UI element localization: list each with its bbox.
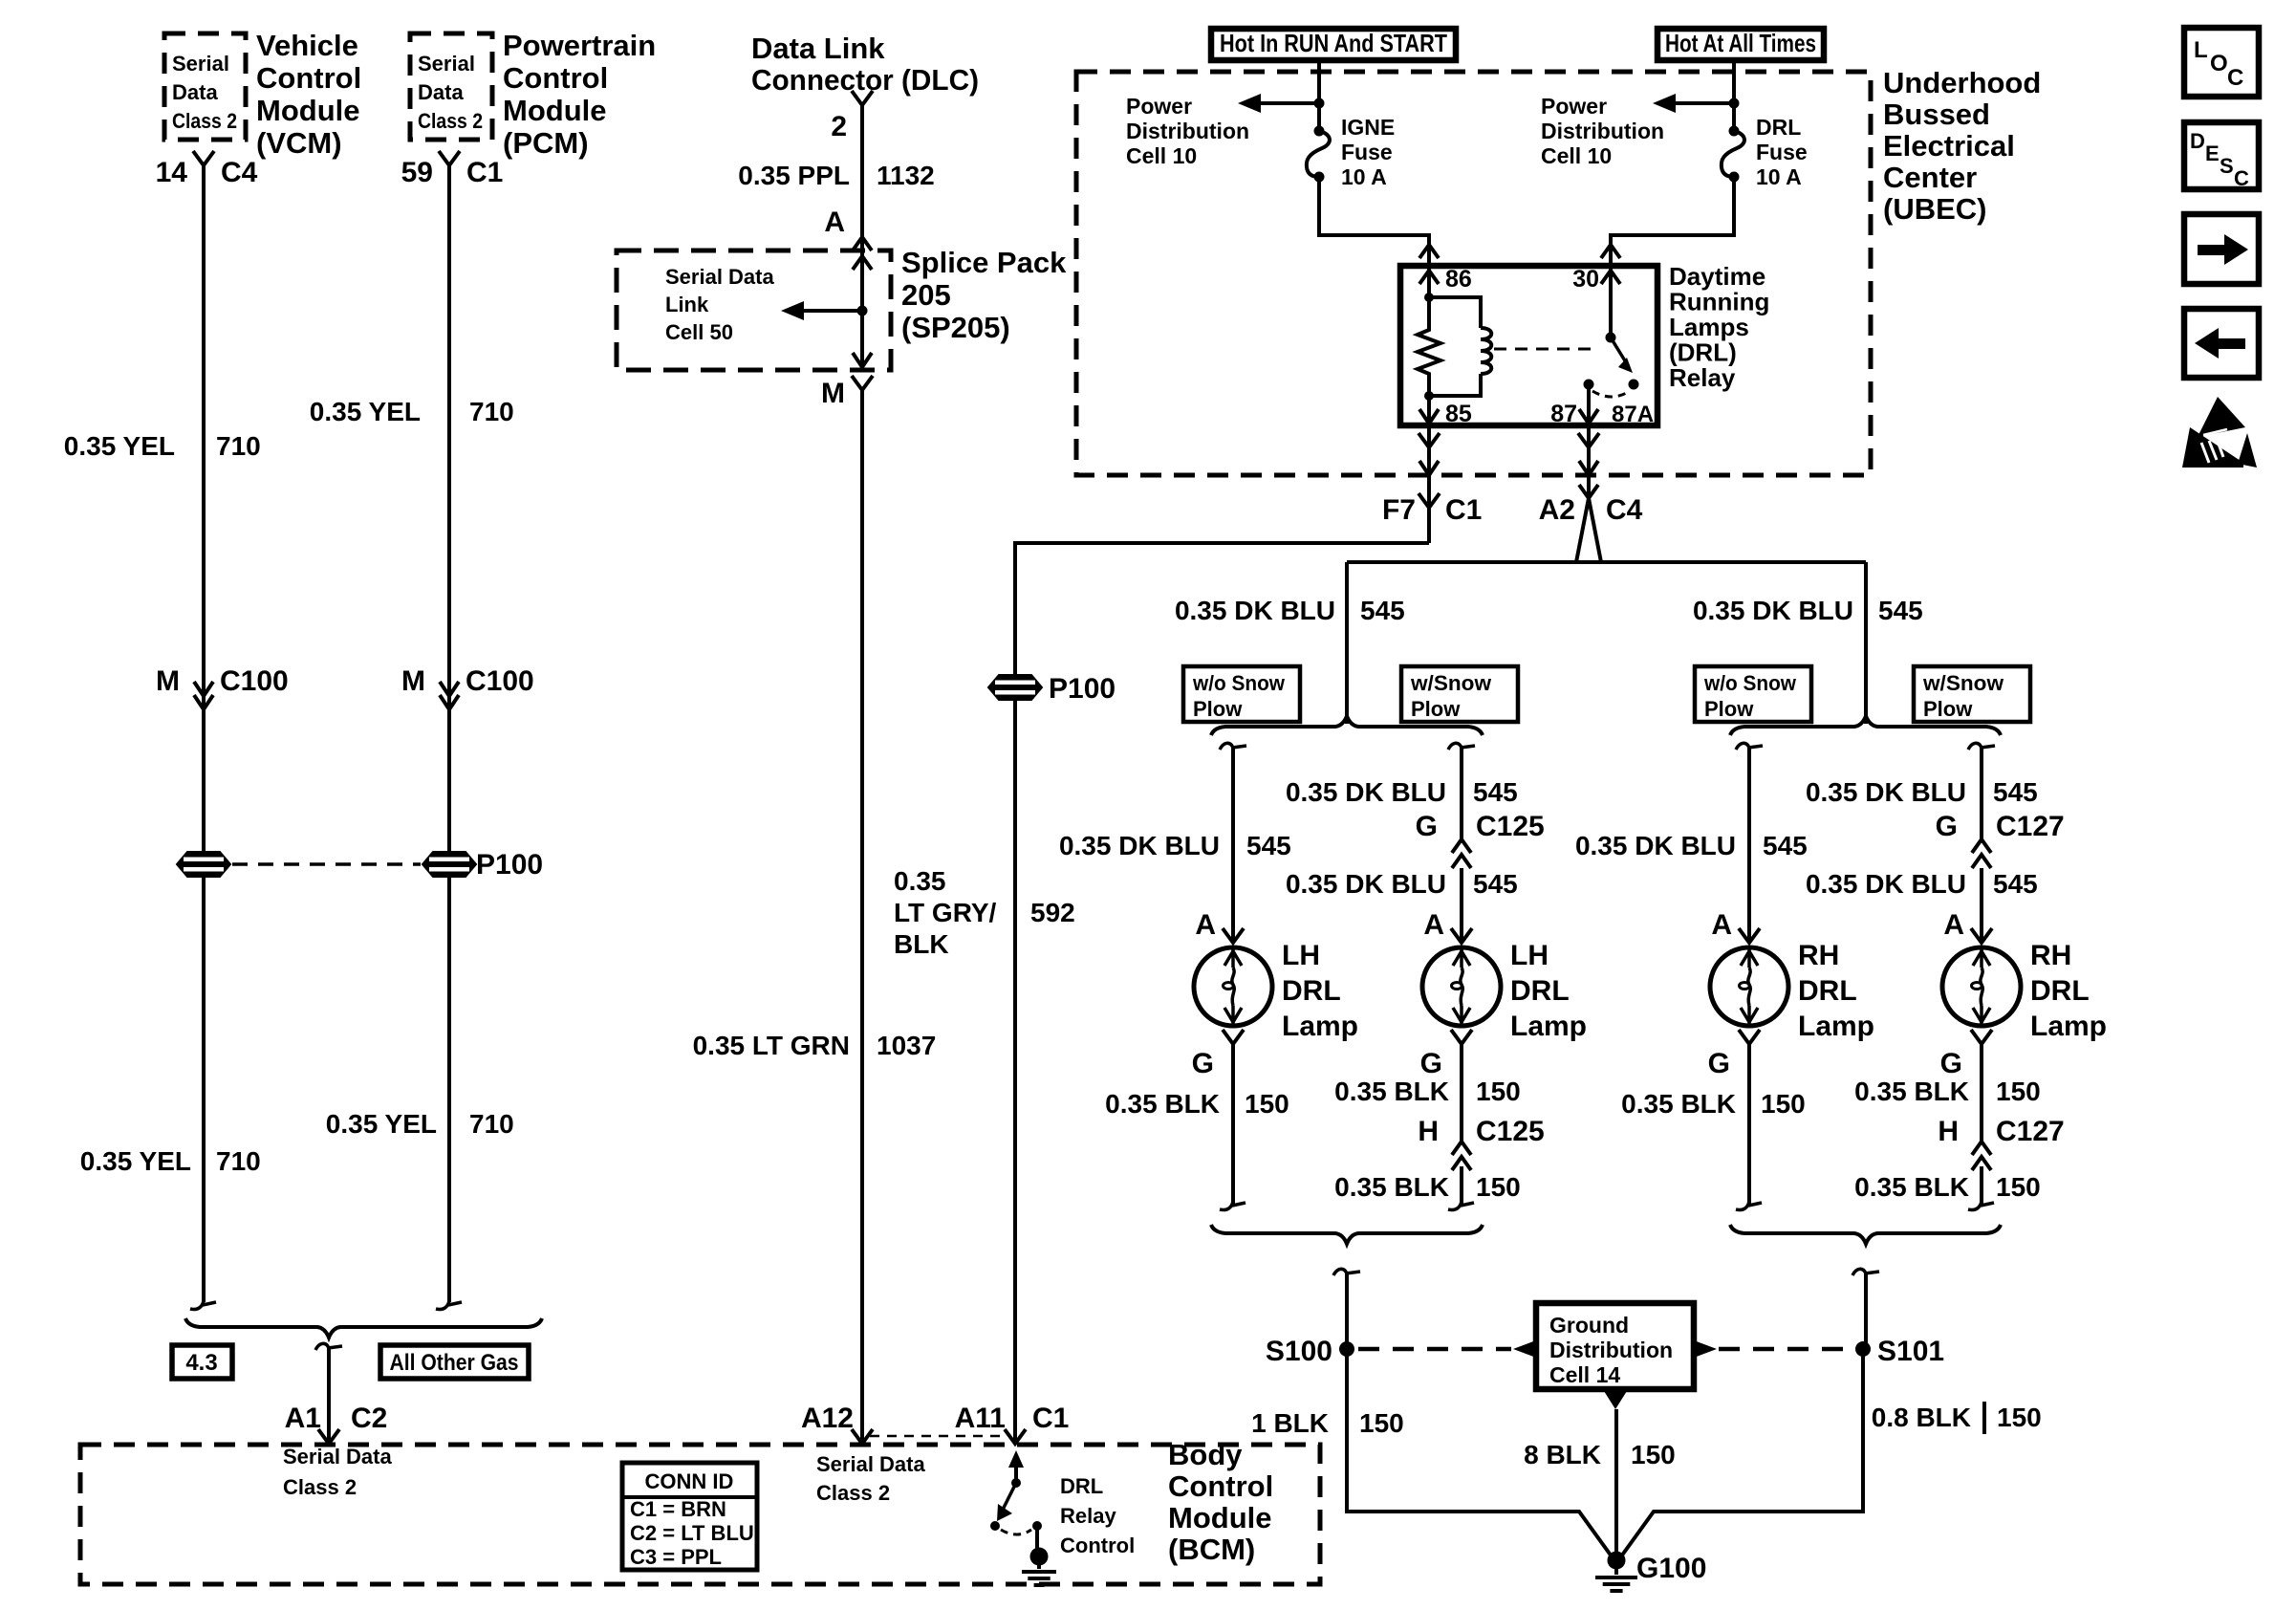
- dashed link S100 to ground distribution: [1358, 1347, 1511, 1352]
- svg-text:Cell 50: Cell 50: [665, 320, 733, 344]
- dashed link P100: [232, 862, 421, 866]
- junction dot SP205: [857, 306, 868, 316]
- option brace S101 bottom: [1730, 1225, 2001, 1244]
- svg-text:0.35 YEL: 0.35 YEL: [64, 431, 175, 461]
- wire ground distribution to G100: [1614, 1409, 1618, 1554]
- svg-text:A1: A1: [285, 1403, 321, 1434]
- svg-text:Class 2: Class 2: [172, 109, 237, 133]
- svg-text:Plow: Plow: [1411, 697, 1461, 721]
- svg-text:G: G: [1416, 811, 1438, 842]
- svg-text:545: 545: [1246, 831, 1291, 860]
- svg-text:C1: C1: [466, 157, 503, 188]
- svg-text:A: A: [1195, 909, 1216, 941]
- svg-text:(SP205): (SP205): [901, 311, 1010, 344]
- svg-text:(PCM): (PCM): [503, 126, 589, 160]
- wire RH w/snow plow feed upper: [1968, 743, 1982, 751]
- svg-text:0.35 PPL: 0.35 PPL: [738, 161, 850, 190]
- wire Hot At All Times to DRL fuse: [1732, 60, 1736, 131]
- dashed link ground distribution to S101: [1694, 1340, 1717, 1358]
- svg-text:C2 = LT BLU: C2 = LT BLU: [630, 1521, 754, 1545]
- svg-text:Module: Module: [1168, 1501, 1272, 1534]
- svg-text:Serial Data: Serial Data: [283, 1445, 392, 1469]
- svg-text:545: 545: [1763, 831, 1808, 860]
- svg-text:1132: 1132: [877, 161, 935, 190]
- svg-text:O: O: [2210, 51, 2228, 76]
- svg-text:Splice Pack: Splice Pack: [901, 246, 1067, 279]
- svg-text:0.8 BLK: 0.8 BLK: [1872, 1403, 1971, 1432]
- svg-text:Bussed: Bussed: [1883, 98, 1990, 131]
- relay pin 85 wire: [1427, 396, 1431, 425]
- node G at LH w/o lamp: [1223, 1030, 1244, 1044]
- svg-text:Data Link: Data Link: [751, 32, 885, 65]
- svg-text:A2: A2: [1539, 494, 1575, 526]
- svg-text:P100: P100: [476, 849, 543, 881]
- svg-text:A: A: [1943, 909, 1964, 941]
- svg-text:C2: C2: [351, 1403, 387, 1434]
- svg-text:A: A: [1711, 909, 1732, 941]
- svg-text:0.35 DK BLU: 0.35 DK BLU: [1575, 831, 1736, 860]
- icon LOC: [2184, 28, 2259, 97]
- svg-text:Fuse: Fuse: [1341, 140, 1393, 164]
- svg-text:C4: C4: [1606, 494, 1643, 526]
- svg-text:Ground: Ground: [1549, 1313, 1629, 1338]
- svg-text:A11: A11: [955, 1403, 1006, 1434]
- svg-text:710: 710: [469, 397, 514, 426]
- svg-text:0.35 DK BLU: 0.35 DK BLU: [1806, 777, 1966, 807]
- svg-text:1037: 1037: [877, 1031, 936, 1060]
- ground G100: [1608, 1552, 1626, 1570]
- svg-text:86: 86: [1445, 266, 1472, 293]
- svg-text:150: 150: [1359, 1408, 1404, 1438]
- svg-text:(BCM): (BCM): [1168, 1533, 1255, 1566]
- svg-text:C1: C1: [1445, 494, 1482, 526]
- wire RH w/snow feed lower: [1980, 868, 1983, 942]
- serial data link arrow: [798, 309, 863, 313]
- svg-text:Module: Module: [256, 94, 360, 127]
- wire right pair feed: [1864, 562, 1868, 724]
- svg-text:Fuse: Fuse: [1756, 140, 1808, 164]
- wire S100 splice feed: [1333, 1269, 1347, 1277]
- svg-text:Plow: Plow: [1704, 697, 1754, 721]
- svg-text:150: 150: [1996, 1172, 2041, 1202]
- relay pin 87 wire: [1587, 384, 1591, 425]
- icon DESC: [2184, 122, 2259, 189]
- svg-text:85: 85: [1445, 401, 1472, 427]
- wire RH w/ ground lower: [1980, 1166, 1983, 1205]
- svg-text:Serial: Serial: [172, 52, 229, 76]
- svg-text:0.35 BLK: 0.35 BLK: [1105, 1089, 1220, 1119]
- relay switch arm: [1611, 337, 1626, 362]
- svg-text:Serial Data: Serial Data: [816, 1452, 925, 1476]
- svg-text:Underhood: Underhood: [1883, 66, 2041, 99]
- svg-text:0.35 LT GRN: 0.35 LT GRN: [693, 1031, 850, 1060]
- svg-text:Distribution: Distribution: [1549, 1338, 1673, 1362]
- svg-text:LH: LH: [1510, 940, 1549, 971]
- svg-text:Link: Link: [665, 293, 709, 316]
- svg-text:545: 545: [1878, 596, 1923, 625]
- svg-text:205: 205: [901, 278, 951, 312]
- wire relay 85 to F7: [1427, 425, 1431, 543]
- junction dot IGNE feed: [1314, 98, 1325, 109]
- svg-text:Cell 10: Cell 10: [1126, 143, 1197, 168]
- wire LH w/ ground upper: [1460, 1044, 1463, 1142]
- wire relay 87 to A2: [1587, 425, 1591, 498]
- svg-text:C127: C127: [1996, 811, 2065, 842]
- svg-text:M: M: [821, 378, 845, 409]
- option box w/o Snow Plow (RH): [1695, 666, 1811, 722]
- svg-text:545: 545: [1473, 869, 1518, 899]
- svg-text:w/o Snow: w/o Snow: [1192, 671, 1286, 695]
- svg-text:S: S: [2220, 154, 2234, 178]
- node G at LH w/ lamp: [1451, 1030, 1472, 1044]
- svg-text:C125: C125: [1476, 811, 1545, 842]
- relay switch pivot: [1606, 333, 1616, 343]
- svg-text:M: M: [156, 665, 180, 697]
- svg-text:0.35 DK BLU: 0.35 DK BLU: [1693, 596, 1853, 625]
- option brace S101 top: [1730, 716, 2001, 735]
- relay contact 87: [1584, 380, 1594, 390]
- connector DLC pin 2: [852, 91, 873, 105]
- svg-text:Relay: Relay: [1669, 363, 1736, 392]
- svg-text:Connector (DLC): Connector (DLC): [751, 63, 979, 97]
- grommet P100 (A11 wire): [988, 675, 1042, 700]
- svg-text:545: 545: [1993, 869, 2038, 899]
- junction dot coil bottom: [1424, 391, 1434, 401]
- svg-text:0.35 DK BLU: 0.35 DK BLU: [1286, 869, 1446, 899]
- svg-text:L: L: [2194, 37, 2208, 63]
- svg-text:E: E: [2205, 141, 2220, 165]
- svg-text:Control: Control: [503, 61, 608, 95]
- wire S101 to G100: [1621, 1349, 1863, 1556]
- svg-text:0.35 BLK: 0.35 BLK: [1334, 1172, 1449, 1202]
- wire to BCM A1: [315, 1343, 329, 1352]
- svg-text:G100: G100: [1636, 1553, 1706, 1584]
- svg-text:0.35 YEL: 0.35 YEL: [326, 1109, 437, 1139]
- option brace VCM/PCM join: [185, 1318, 542, 1338]
- svg-text:Control: Control: [1168, 1469, 1273, 1503]
- wire S100 to G100: [1347, 1349, 1612, 1556]
- wire S101 splice feed: [1852, 1269, 1866, 1277]
- svg-text:Hot At All Times: Hot At All Times: [1665, 29, 1816, 57]
- svg-text:w/Snow: w/Snow: [1410, 671, 1492, 695]
- junction dot coil top: [1424, 293, 1434, 302]
- wire LH w/o ground: [1231, 1044, 1235, 1205]
- wire end hook VCM: [190, 1300, 204, 1310]
- connector pin A12 at BCM: [852, 1429, 873, 1444]
- svg-text:CONN ID: CONN ID: [645, 1469, 734, 1493]
- option box w/Snow Plow (RH): [1914, 666, 2030, 722]
- relay 87-87A dashed arc: [1592, 391, 1630, 397]
- svg-text:10 A: 10 A: [1341, 164, 1387, 189]
- svg-text:DRL: DRL: [1510, 975, 1570, 1007]
- wire RH w/o ground: [1747, 1044, 1751, 1205]
- option box All Other Gas: [380, 1345, 529, 1379]
- svg-text:F7: F7: [1382, 494, 1416, 526]
- lamp LH (w/snow plow): [1422, 947, 1501, 1026]
- relay DRL box: [1400, 266, 1657, 425]
- svg-text:S101: S101: [1877, 1336, 1944, 1367]
- splice S100: [1339, 1341, 1354, 1357]
- svg-text:Data: Data: [418, 80, 464, 104]
- grommet P100 (VCM wire): [177, 852, 230, 877]
- svg-text:C4: C4: [221, 157, 258, 188]
- lamp RH (w/o snow plow): [1710, 947, 1788, 1026]
- wire end hook PCM: [436, 1300, 449, 1310]
- svg-text:(DRL): (DRL): [1669, 338, 1737, 367]
- svg-text:Cell 14: Cell 14: [1549, 1362, 1620, 1387]
- connector C1 pin F7: [1419, 493, 1440, 508]
- svg-text:1 BLK: 1 BLK: [1251, 1408, 1329, 1438]
- svg-text:C3 = PPL: C3 = PPL: [630, 1545, 722, 1569]
- svg-text:A: A: [1423, 909, 1444, 941]
- wire VCM serial data vertical: [202, 165, 206, 1302]
- option brace S100 bottom: [1211, 1225, 1483, 1244]
- svg-text:2: 2: [831, 111, 847, 142]
- svg-text:w/Snow: w/Snow: [1922, 671, 2004, 695]
- svg-text:Module: Module: [503, 94, 607, 127]
- svg-text:59: 59: [401, 157, 433, 188]
- table CONN ID: [622, 1463, 757, 1570]
- wire RH w/o snow plow feed: [1736, 743, 1749, 751]
- module VCM dashed box: [164, 33, 246, 140]
- svg-text:C100: C100: [466, 665, 534, 697]
- svg-text:Control: Control: [1060, 1534, 1135, 1557]
- box Ground Distribution Cell 14: [1536, 1303, 1694, 1389]
- relay coil: [1429, 297, 1481, 328]
- svg-text:0.35 DK BLU: 0.35 DK BLU: [1059, 831, 1220, 860]
- wire left pair feed: [1345, 562, 1349, 724]
- relay actuation dashed link: [1494, 348, 1598, 351]
- splice pack SP205 dashed box: [617, 250, 891, 370]
- svg-text:0.35 BLK: 0.35 BLK: [1854, 1172, 1969, 1202]
- relay pin 86 wire: [1427, 266, 1431, 297]
- svg-text:Electrical: Electrical: [1883, 129, 2015, 163]
- ground at DRL relay control: [1037, 1565, 1041, 1569]
- svg-text:150: 150: [1996, 1077, 2041, 1106]
- svg-text:C1: C1: [1032, 1403, 1069, 1434]
- switch DRL Relay Control: [1008, 1450, 1024, 1468]
- svg-text:0.35 BLK: 0.35 BLK: [1334, 1077, 1449, 1106]
- junction dot DRL feed: [1729, 98, 1740, 109]
- arrow ground distribution down: [1604, 1391, 1627, 1409]
- svg-text:0.35 BLK: 0.35 BLK: [1621, 1089, 1736, 1119]
- svg-text:Lamp: Lamp: [2030, 1011, 2107, 1042]
- icon arrow left: [2184, 309, 2259, 378]
- wire RH w/ ground upper: [1980, 1044, 1983, 1142]
- svg-text:H: H: [1938, 1116, 1959, 1147]
- svg-text:150: 150: [1631, 1440, 1676, 1469]
- connector C4 pin A2 double wire: [1579, 485, 1598, 498]
- svg-text:Lamps: Lamps: [1669, 313, 1749, 341]
- svg-text:A: A: [824, 207, 845, 238]
- wire DRL fuse to relay pin 30: [1611, 177, 1734, 266]
- svg-text:C125: C125: [1476, 1116, 1545, 1147]
- svg-text:710: 710: [216, 431, 261, 461]
- svg-text:All Other Gas: All Other Gas: [390, 1350, 519, 1376]
- icon arrow right: [2184, 214, 2259, 284]
- svg-text:Powertrain: Powertrain: [503, 29, 656, 62]
- svg-text:Running: Running: [1669, 288, 1769, 316]
- svg-text:C: C: [2227, 65, 2243, 91]
- wire SP205 to BCM A12: [860, 390, 864, 1442]
- svg-text:545: 545: [1993, 777, 2038, 807]
- icon ESD warning triangle: [2198, 397, 2245, 437]
- svg-text:C100: C100: [220, 665, 289, 697]
- option box 4.3: [172, 1345, 232, 1379]
- svg-text:Control: Control: [256, 61, 361, 95]
- svg-text:Cell 10: Cell 10: [1541, 143, 1612, 168]
- svg-text:Class 2: Class 2: [283, 1475, 357, 1499]
- node G at RH w/o lamp: [1739, 1030, 1760, 1044]
- module UBEC dashed box: [1076, 72, 1871, 475]
- svg-text:w/o Snow: w/o Snow: [1703, 671, 1797, 695]
- svg-text:M: M: [401, 665, 425, 697]
- svg-text:LT GRY/: LT GRY/: [894, 898, 997, 927]
- wire LH w/snow feed lower: [1460, 868, 1463, 942]
- svg-text:DRL: DRL: [1756, 115, 1801, 140]
- svg-text:545: 545: [1473, 777, 1518, 807]
- svg-text:C127: C127: [1996, 1116, 2065, 1147]
- wire F7 to BCM A11: [1015, 543, 1429, 1442]
- fuse DRL 10A: [1722, 131, 1744, 177]
- svg-text:Lamp: Lamp: [1510, 1011, 1587, 1042]
- svg-text:710: 710: [216, 1146, 261, 1176]
- wire Hot In RUN to IGNE fuse: [1317, 60, 1321, 131]
- svg-text:Relay: Relay: [1060, 1504, 1116, 1528]
- svg-text:Lamp: Lamp: [1282, 1011, 1358, 1042]
- wire through SP205: [860, 250, 864, 370]
- module BCM dashed box: [80, 1445, 1320, 1584]
- svg-text:Power: Power: [1541, 94, 1607, 119]
- svg-text:8 BLK: 8 BLK: [1524, 1440, 1601, 1469]
- wire A2 branch horizontal: [1347, 560, 1866, 564]
- connector C1 pin 59 at PCM: [439, 151, 460, 165]
- option box w/Snow Plow (LH): [1401, 666, 1518, 722]
- svg-text:Body: Body: [1168, 1438, 1243, 1471]
- svg-text:Lamp: Lamp: [1798, 1011, 1874, 1042]
- svg-text:Serial: Serial: [418, 52, 475, 76]
- svg-text:RH: RH: [2030, 940, 2071, 971]
- svg-text:0.35 YEL: 0.35 YEL: [310, 397, 421, 426]
- svg-text:150: 150: [1245, 1089, 1289, 1119]
- wire PCM serial data vertical: [447, 165, 451, 1302]
- svg-text:10 A: 10 A: [1756, 164, 1802, 189]
- grommet P100 (PCM wire): [422, 852, 476, 877]
- svg-text:592: 592: [1030, 898, 1075, 927]
- svg-text:Class 2: Class 2: [816, 1481, 890, 1505]
- svg-text:A12: A12: [801, 1403, 854, 1434]
- lamp LH (w/o snow plow): [1194, 947, 1272, 1026]
- svg-text:14: 14: [156, 157, 188, 188]
- resistor relay coil suppression: [1418, 297, 1440, 396]
- svg-text:Plow: Plow: [1923, 697, 1973, 721]
- svg-text:DRL: DRL: [1282, 975, 1341, 1007]
- svg-text:DRL: DRL: [2030, 975, 2090, 1007]
- svg-text:Daytime: Daytime: [1669, 262, 1765, 291]
- svg-text:(UBEC): (UBEC): [1883, 192, 1987, 226]
- svg-text:G: G: [1420, 1048, 1442, 1079]
- svg-text:RH: RH: [1798, 940, 1839, 971]
- svg-text:G: G: [1708, 1048, 1730, 1079]
- connector C1 pin A11 at BCM: [1005, 1429, 1026, 1444]
- wire DLC to SP205: [860, 105, 864, 250]
- connector C4 pin 14 at VCM: [193, 151, 214, 165]
- connector C2 pin A1 at BCM: [318, 1429, 339, 1444]
- svg-text:87A: 87A: [1612, 402, 1654, 427]
- svg-text:0.35 DK BLU: 0.35 DK BLU: [1175, 596, 1335, 625]
- svg-text:IGNE: IGNE: [1341, 115, 1395, 140]
- svg-text:P100: P100: [1049, 673, 1116, 705]
- svg-text:4.3: 4.3: [185, 1350, 217, 1376]
- svg-text:710: 710: [469, 1109, 514, 1139]
- relay pin 30 wire: [1609, 266, 1613, 337]
- svg-text:G: G: [1936, 811, 1958, 842]
- svg-text:0.35 DK BLU: 0.35 DK BLU: [1286, 777, 1446, 807]
- wire LH w/snow plow feed upper: [1448, 743, 1462, 751]
- svg-text:0.35 BLK: 0.35 BLK: [1854, 1077, 1969, 1106]
- svg-text:Serial Data: Serial Data: [665, 265, 774, 289]
- option box w/o Snow Plow (LH): [1183, 666, 1300, 722]
- svg-text:G: G: [1940, 1048, 1962, 1079]
- svg-text:Distribution: Distribution: [1541, 119, 1664, 143]
- svg-text:H: H: [1418, 1116, 1439, 1147]
- svg-text:Hot In RUN And START: Hot In RUN And START: [1220, 29, 1447, 57]
- svg-text:Power: Power: [1126, 94, 1192, 119]
- svg-text:150: 150: [1476, 1172, 1521, 1202]
- svg-text:BLK: BLK: [894, 929, 949, 959]
- svg-text:(VCM): (VCM): [256, 126, 342, 160]
- lamp RH (w/snow plow): [1942, 947, 2021, 1026]
- svg-text:545: 545: [1360, 596, 1405, 625]
- power label Hot In RUN And START: [1211, 29, 1456, 60]
- svg-text:Plow: Plow: [1193, 697, 1243, 721]
- svg-text:0.35 DK BLU: 0.35 DK BLU: [1806, 869, 1966, 899]
- fuse IGNE 10A: [1307, 131, 1330, 177]
- svg-text:30: 30: [1572, 266, 1599, 293]
- wire IGNE fuse to relay pin 86: [1319, 177, 1429, 266]
- svg-text:D: D: [2190, 129, 2205, 153]
- svg-text:LH: LH: [1282, 940, 1320, 971]
- wire LH w/ ground lower: [1460, 1166, 1463, 1205]
- svg-text:150: 150: [1997, 1403, 2042, 1432]
- relay contact 87A: [1629, 380, 1639, 390]
- dashed connector line A12-A11: [870, 1435, 1007, 1438]
- svg-text:Distribution: Distribution: [1126, 119, 1249, 143]
- svg-text:0.35 YEL: 0.35 YEL: [80, 1146, 191, 1176]
- svg-text:0.35: 0.35: [894, 866, 946, 896]
- splice S101: [1855, 1341, 1871, 1357]
- arrow to Power Distribution (left): [1255, 101, 1319, 105]
- module PCM dashed box: [410, 33, 492, 140]
- svg-text:Center: Center: [1883, 161, 1977, 194]
- svg-text:150: 150: [1761, 1089, 1806, 1119]
- svg-text:G: G: [1192, 1048, 1214, 1079]
- svg-text:S100: S100: [1266, 1336, 1332, 1367]
- svg-text:C: C: [2234, 166, 2249, 190]
- power label Hot At All Times: [1657, 29, 1824, 60]
- svg-text:87: 87: [1550, 401, 1577, 427]
- arrow to Power Distribution (right): [1670, 101, 1734, 105]
- svg-text:Class 2: Class 2: [418, 109, 483, 133]
- svg-text:DRL: DRL: [1060, 1474, 1103, 1498]
- svg-text:DRL: DRL: [1798, 975, 1857, 1007]
- svg-text:Vehicle: Vehicle: [256, 29, 358, 62]
- svg-text:Data: Data: [172, 80, 218, 104]
- svg-text:150: 150: [1476, 1077, 1521, 1106]
- svg-text:C1 = BRN: C1 = BRN: [630, 1497, 726, 1521]
- wire LH w/o snow plow feed: [1220, 743, 1233, 751]
- option brace S100 top: [1211, 716, 1483, 735]
